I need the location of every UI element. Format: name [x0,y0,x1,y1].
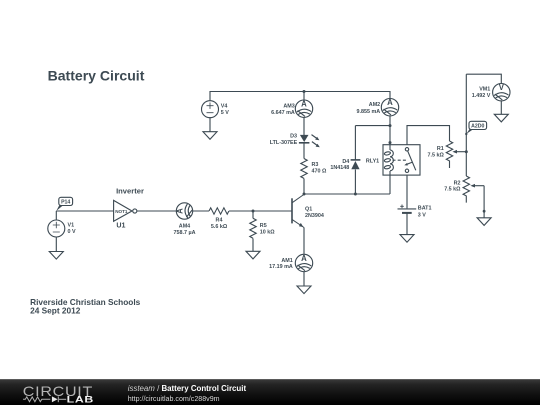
svg-text:R5: R5 [260,223,267,229]
svg-text:0 V: 0 V [68,229,76,235]
svg-text:AM2: AM2 [369,102,380,108]
svg-text:Inverter: Inverter [116,186,144,195]
svg-text:758.7 µA: 758.7 µA [174,230,196,236]
svg-text:1.492 V: 1.492 V [472,93,491,99]
svg-text:U1: U1 [116,222,125,230]
svg-text:V1: V1 [68,223,75,229]
svg-text:A: A [387,98,393,107]
svg-text:A: A [175,208,184,214]
svg-text:Q1: Q1 [305,206,312,212]
svg-text:VM1: VM1 [479,86,490,92]
svg-text:issteam / Battery Control Circ: issteam / Battery Control Circuit [128,384,247,393]
svg-text:3 V: 3 V [418,213,426,219]
svg-text:6.647 mA: 6.647 mA [271,110,295,116]
svg-text:Battery Circuit: Battery Circuit [48,68,145,84]
svg-text:1N4148: 1N4148 [330,165,349,171]
svg-text:LAB: LAB [67,395,94,405]
svg-text:7.5 kΩ: 7.5 kΩ [444,187,461,193]
svg-text:D3: D3 [290,133,297,139]
svg-text:http://circuitlab.com/c288v9m: http://circuitlab.com/c288v9m [128,395,220,403]
svg-text:R3: R3 [312,162,319,168]
svg-text:5 V: 5 V [221,110,229,116]
svg-text:A2D0: A2D0 [471,124,484,130]
svg-text:470 Ω: 470 Ω [312,169,327,175]
svg-text:RLY1: RLY1 [366,158,379,164]
svg-text:BAT1: BAT1 [418,206,432,212]
svg-text:R1: R1 [437,146,444,152]
svg-text:17.19 mA: 17.19 mA [269,264,293,270]
svg-text:9.855 mA: 9.855 mA [357,109,381,115]
svg-text:24 Sept 2012: 24 Sept 2012 [30,306,81,316]
svg-text:AM1: AM1 [281,258,292,264]
svg-text:AM3: AM3 [283,104,294,110]
svg-text:LTL-307EE: LTL-307EE [270,140,298,146]
svg-text:NOT1: NOT1 [115,209,128,214]
svg-text:AM4: AM4 [179,223,190,229]
svg-text:V: V [499,83,505,92]
svg-text:P14: P14 [61,200,70,206]
svg-text:7.5 kΩ: 7.5 kΩ [427,153,444,159]
svg-text:R4: R4 [216,218,223,224]
svg-text:A: A [301,254,307,263]
svg-text:A: A [301,100,307,109]
svg-text:R2: R2 [454,180,461,186]
svg-text:V4: V4 [221,104,228,110]
svg-text:5.6 kΩ: 5.6 kΩ [211,224,228,230]
svg-text:2N3904: 2N3904 [305,213,324,219]
svg-text:10 kΩ: 10 kΩ [260,230,275,236]
